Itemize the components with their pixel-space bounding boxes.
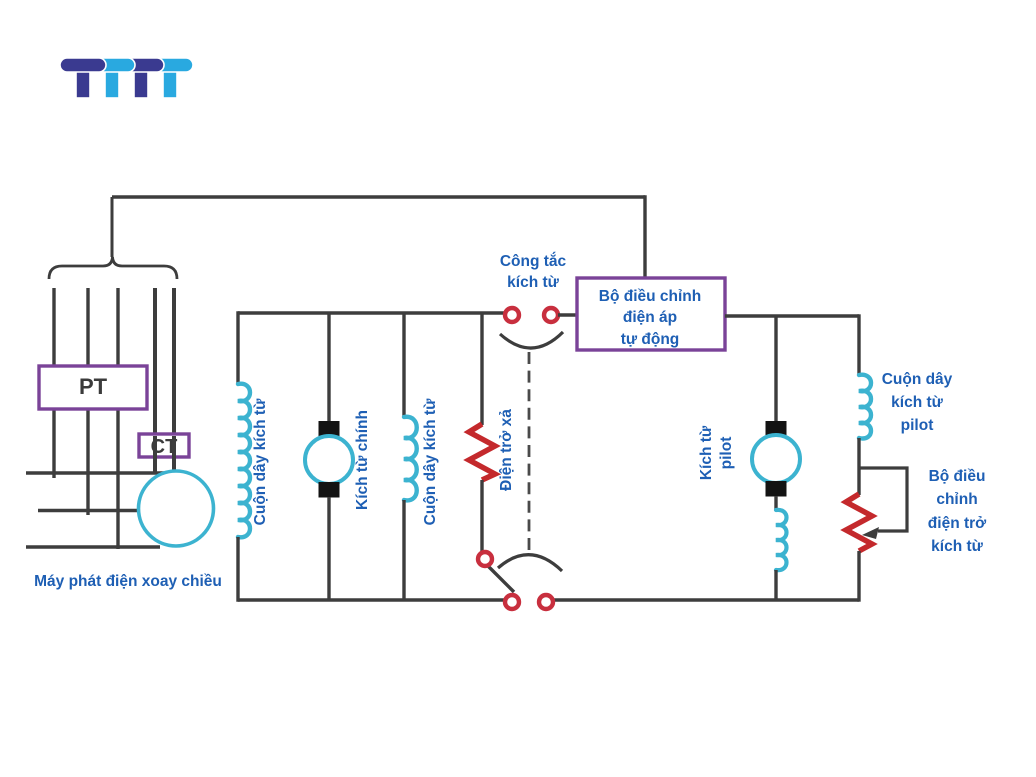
label Cuon day kich tu (left) [252, 398, 269, 525]
wire switch to AVR box [558, 313, 577, 316]
svg-text:PT: PT [79, 374, 108, 399]
wire right branch top lead [857, 314, 860, 376]
svg-text:Kích từ chính: Kích từ chính [354, 410, 371, 510]
wire bottom bus right [554, 598, 859, 601]
svg-text:Điện trở xả: Điện trở xả [498, 409, 515, 491]
inductor pilot field coil (Cuon day kich tu pilot) [859, 375, 871, 439]
wire AVR top drop [643, 195, 646, 279]
inductor coil1 (Cuon day kich tu) [238, 384, 250, 538]
svg-text:Cuộn dây: Cuộn dây [882, 371, 953, 388]
wire CT line A lower [153, 436, 157, 472]
rheostat wiper arrowhead [862, 527, 879, 539]
brace over phase lines [49, 257, 177, 279]
label Cuon day kich tu (middle) [422, 398, 439, 525]
motor circle Kich tu pilot [752, 435, 800, 483]
brush bottom (Kich tu chinh) [319, 482, 340, 498]
svg-text:kích từ: kích từ [507, 274, 559, 291]
wire exciter top lead [327, 313, 330, 421]
wire bus line 1 [26, 471, 165, 475]
switch terminal bottom-right [539, 595, 553, 609]
svg-text:pilot: pilot [901, 417, 934, 434]
svg-text:điện trở: điện trở [928, 515, 987, 532]
wire brace stem [111, 197, 114, 257]
wire AVR right bus [725, 314, 859, 317]
PT box [39, 366, 147, 409]
wire coil2 bottom lead [402, 500, 405, 600]
brush top (Kich tu pilot) [766, 421, 787, 437]
logo T3 (indigo) [124, 58, 164, 98]
wire CT line B lower [172, 436, 176, 472]
generator circle G [139, 471, 214, 546]
wire coil1 bottom lead [236, 537, 239, 602]
wire coil3 to rheostat [857, 438, 860, 495]
svg-text:kích từ: kích từ [931, 538, 983, 555]
logo T1 (indigo) [60, 58, 106, 98]
wire coil2 top lead [402, 313, 405, 418]
svg-text:Cuộn dây kích từ: Cuộn dây kích từ [252, 398, 269, 525]
inductor coil2 (Cuon day kich tu) [404, 417, 417, 501]
svg-text:Máy phát điện xoay chiều: Máy phát điện xoay chiều [34, 573, 222, 590]
switch terminal top-right [544, 308, 558, 322]
CT box [139, 434, 189, 458]
switch arc top [500, 332, 563, 348]
switch arc bottom [498, 555, 562, 571]
svg-text:tự động: tự động [621, 331, 680, 348]
AVR box Bo dieu chinh dien ap tu dong [577, 278, 725, 350]
label May phat dien xoay chieu [34, 573, 222, 590]
wire bus line 2 [38, 509, 139, 513]
svg-text:điện áp: điện áp [623, 309, 677, 326]
svg-text:Công tắc: Công tắc [500, 252, 567, 270]
svg-text:chỉnh: chỉnh [936, 491, 977, 508]
brush top (Kich tu chinh) [319, 421, 340, 437]
wire rheostat bottom lead [857, 551, 860, 602]
wire pilot exciter mid lead [774, 496, 777, 511]
switch blade bottom [486, 564, 514, 592]
wire pilot exciter bottom lead [774, 570, 777, 600]
label Kich tu chinh [354, 410, 371, 510]
label Cuon day kich tu pilot [882, 371, 953, 434]
svg-text:pilot: pilot [718, 437, 735, 470]
switch terminal bottom-upper [478, 552, 492, 566]
svg-text:Cuộn dây kích từ: Cuộn dây kích từ [422, 398, 439, 525]
label Cong tac kich tu [500, 252, 567, 291]
brush bottom (Kich tu pilot) [766, 481, 787, 497]
wire CT line A [153, 288, 157, 472]
wire phase line 3 [116, 288, 119, 549]
svg-text:Kích từ: Kích từ [698, 425, 715, 480]
svg-text:kích từ: kích từ [891, 394, 943, 411]
wire discharge resistor bottom lead [482, 480, 485, 556]
dashed link line [528, 352, 531, 550]
wire phase line 1 [52, 288, 55, 478]
wire pilot exciter top lead [774, 316, 777, 421]
wire bus line 3 [26, 545, 160, 549]
label Bo dieu chinh dien tro kich tu [928, 468, 987, 555]
label Dien tro xa [498, 409, 515, 491]
label Kich tu pilot [698, 425, 735, 480]
resistor rheostat (red zigzag) [846, 494, 872, 551]
rheostat bypass loop [859, 468, 907, 531]
svg-text:Bộ điều chỉnh: Bộ điều chỉnh [599, 288, 701, 305]
wire discharge resistor top lead [480, 313, 483, 425]
inductor pilot coil [776, 510, 787, 570]
resistor Dien tro xa (red zigzag) [469, 424, 495, 480]
wire coil1 top lead [236, 311, 239, 385]
wire phase line 2 [86, 288, 89, 515]
wire CT line B [172, 288, 176, 472]
switch terminal top-left [505, 308, 519, 322]
logo T2 (light blue) [95, 58, 135, 98]
switch terminal bottom-left [505, 595, 519, 609]
wire middle top bus [238, 311, 504, 314]
logo T4 (light blue) [153, 58, 193, 98]
motor circle Kich tu chinh [305, 436, 353, 484]
svg-text:Bộ điều: Bộ điều [929, 468, 986, 485]
wire top horizontal bus [112, 195, 645, 198]
wire exciter bottom lead [327, 497, 330, 600]
wire bottom bus left [238, 598, 504, 601]
